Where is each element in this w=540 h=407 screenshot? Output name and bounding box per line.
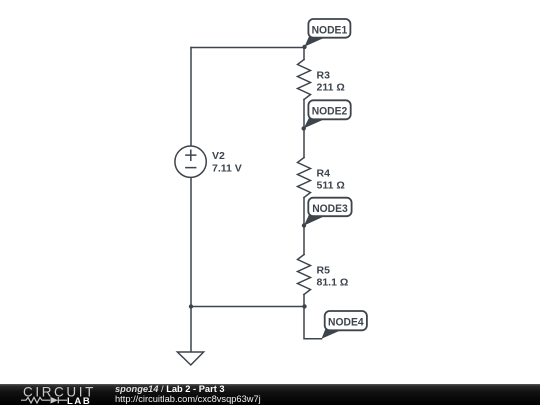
svg-text:R4: R4 (317, 167, 331, 179)
svg-text:211 Ω: 211 Ω (317, 81, 345, 93)
svg-text:V2: V2 (212, 150, 225, 162)
svg-text:7.11 V: 7.11 V (212, 162, 242, 174)
svg-text:NODE4: NODE4 (328, 316, 364, 328)
svg-text:NODE3: NODE3 (312, 203, 348, 215)
svg-text:NODE2: NODE2 (312, 106, 348, 118)
svg-text:511 Ω: 511 Ω (317, 179, 345, 191)
svg-text:R5: R5 (317, 264, 331, 276)
svg-text:NODE1: NODE1 (312, 24, 348, 36)
svg-text:81.1 Ω: 81.1 Ω (317, 276, 349, 288)
svg-text:R3: R3 (317, 69, 331, 81)
